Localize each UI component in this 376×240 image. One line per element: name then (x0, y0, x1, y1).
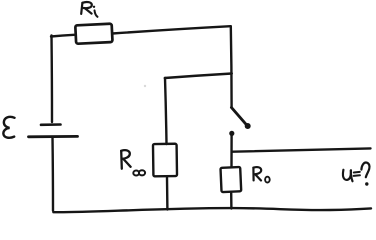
label u=? (343, 163, 370, 182)
wire top-left horizontal (51, 35, 74, 37)
wire middle vertical (165, 78, 167, 144)
wire below battery (51, 137, 54, 211)
label Rinf (121, 150, 145, 175)
wire middle horizontal (165, 74, 232, 79)
battery E negative plate (long) (29, 135, 78, 138)
wire below Rinf (166, 178, 169, 210)
label epsilon (EMF source E) (3, 117, 14, 138)
label R0 (253, 167, 269, 182)
switch arm (231, 107, 246, 125)
label Ri (81, 2, 97, 17)
wire left vertical (50, 36, 53, 123)
battery E positive plate (short) (41, 123, 61, 126)
wire top right (113, 26, 231, 33)
wire bottom (53, 208, 371, 212)
wire output top (233, 148, 371, 151)
wire below switch (230, 135, 233, 167)
resistor Rinf (153, 144, 177, 177)
resistor R0 (220, 167, 241, 192)
wire below R0 (230, 193, 233, 208)
resistor Ri (75, 24, 112, 44)
speck (144, 85, 146, 87)
switch S node dot (229, 131, 234, 136)
switch S contact blob (245, 123, 251, 129)
wire right vertical upper (230, 26, 233, 107)
